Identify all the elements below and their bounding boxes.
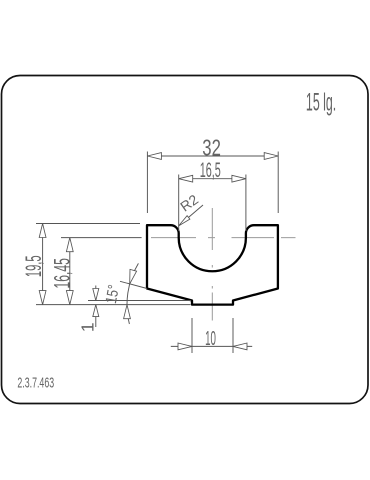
svg-text:2.3.7.463: 2.3.7.463 — [17, 374, 54, 391]
dimension 16,45 dimension line — [69, 238, 71, 305]
svg-text:1: 1 — [77, 322, 97, 332]
svg-text:15 lg.: 15 lg. — [306, 89, 336, 117]
dimension 10 arrowhead right — [233, 343, 247, 350]
angle 15 degrees dimension arc — [127, 263, 138, 324]
dimension 32 dimension line — [147, 155, 278, 157]
dimension 10 extension line right — [232, 318, 234, 353]
dimension 16,5 extension line left — [178, 175, 180, 232]
dimension 32 extension line left — [146, 152, 148, 214]
dimension 19,5 dimension line — [42, 224, 44, 305]
radius R2 leader arrowhead — [179, 216, 190, 226]
dimension 32 arrowhead right — [264, 153, 278, 160]
dimension 1 shaft top — [95, 286, 97, 301]
dimension 16,5 dimension line — [179, 178, 246, 180]
part outline — [147, 225, 278, 304]
dimension 32 extension line right — [277, 152, 279, 214]
dimension 16,45 arrowhead top — [66, 238, 73, 252]
dimension 10 arrowhead left — [178, 343, 192, 350]
dimension 16,45 extension line top — [61, 237, 142, 239]
dimension 1 shaft bottom — [95, 305, 97, 327]
dimension 32 arrowhead left — [147, 153, 161, 160]
border frame — [2, 76, 369, 404]
svg-text:16,45: 16,45 — [49, 258, 74, 289]
dimension 16,5 arrowhead left — [179, 175, 193, 182]
angle 15 degrees reference line — [120, 281, 147, 288]
svg-text:19,5: 19,5 — [21, 255, 46, 277]
angle 15 degrees arrowhead bottom — [124, 305, 131, 319]
bottom reference extension line — [36, 304, 191, 306]
dimension 1 arrowhead top — [93, 289, 99, 301]
dimension 10 dimension line — [171, 345, 252, 347]
horizontal centerline — [151, 237, 296, 239]
radius R2 leader line — [179, 205, 203, 226]
dimension 19,5 extension line top — [36, 223, 140, 225]
dimension 19,5 arrowhead bottom — [39, 291, 46, 305]
dimension 16,5 arrowhead right — [232, 175, 246, 182]
svg-text:16,5: 16,5 — [200, 157, 221, 182]
vertical centerline — [211, 208, 213, 321]
svg-text:10: 10 — [205, 327, 216, 350]
angle 15 degrees arrowhead top — [130, 269, 137, 284]
dimension 1 extension line top — [88, 300, 191, 302]
dimension 16,45 arrowhead bottom — [66, 291, 73, 305]
svg-text:15°: 15° — [102, 283, 123, 305]
dimension 1 arrowhead bottom — [93, 305, 99, 317]
dimension 16,5 extension line right — [245, 175, 247, 232]
dimension 19,5 arrowhead top — [39, 224, 46, 238]
dimension 10 extension line left — [191, 318, 193, 353]
